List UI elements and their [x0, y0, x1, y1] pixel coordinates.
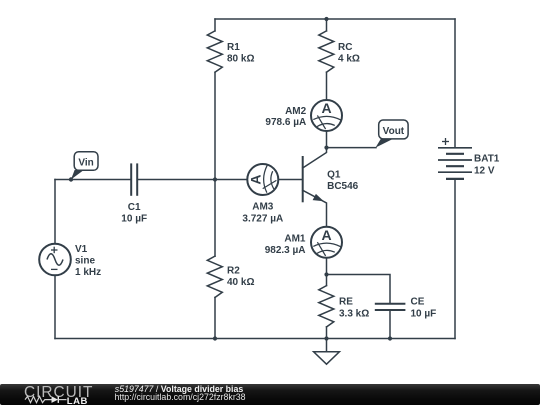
resistor R1: [207, 31, 222, 72]
svg-text:80 kΩ: 80 kΩ: [227, 54, 254, 65]
wire bottom rail: [55, 338, 455, 340]
label RE value: [339, 297, 369, 320]
svg-text:10 µF: 10 µF: [121, 214, 147, 225]
footer bar: [0, 384, 540, 405]
label AM1 value: [265, 233, 306, 256]
label R2 value: [227, 265, 254, 288]
svg-text:RC: RC: [338, 42, 352, 53]
node Vout flag: [376, 120, 409, 148]
label RC value: [338, 42, 360, 65]
svg-text:RE: RE: [339, 297, 353, 308]
footer CircuitLab logo: [24, 384, 93, 405]
svg-text:AM2: AM2: [285, 106, 307, 117]
wire left rail input: [54, 180, 56, 244]
label BAT1 value: [474, 154, 500, 177]
svg-text:C1: C1: [128, 202, 141, 213]
label Q1 value: [327, 169, 359, 192]
resistor RC: [319, 31, 334, 72]
svg-text:1 kHz: 1 kHz: [75, 267, 101, 278]
svg-text:AM3: AM3: [252, 202, 274, 213]
svg-text:AM1: AM1: [284, 233, 306, 244]
wire middle rail R1-R2: [214, 72, 216, 256]
wire AM2 to node Vout: [326, 131, 328, 148]
svg-text:BAT1: BAT1: [474, 154, 500, 165]
battery BAT1: [438, 148, 472, 179]
resistor RE: [319, 286, 334, 327]
wire RE bottom lead: [326, 327, 328, 339]
voltage source V1: [39, 244, 71, 276]
junction R2 bottom node: [213, 336, 217, 340]
wire Vin to C1: [55, 179, 130, 181]
wire top rail: [215, 18, 455, 20]
svg-text:A: A: [321, 100, 331, 116]
wire CE bottom lead: [389, 311, 391, 339]
wire RE top lead: [326, 275, 328, 286]
svg-text:http://circuitlab.com/cj272fzr: http://circuitlab.com/cj272fzr8kr38: [115, 392, 246, 402]
svg-text:3.727 µA: 3.727 µA: [242, 213, 283, 224]
label AM2 value: [265, 106, 306, 128]
svg-text:A: A: [321, 227, 331, 243]
svg-text:Vout: Vout: [383, 126, 405, 137]
svg-text:978.6 µA: 978.6 µA: [265, 117, 306, 128]
ammeter AM3: [247, 164, 278, 195]
footer title text: [115, 384, 246, 402]
junction ground node: [324, 336, 328, 340]
svg-text:3.3 kΩ: 3.3 kΩ: [339, 308, 369, 319]
svg-text:BC546: BC546: [327, 181, 359, 192]
label R1 value: [227, 42, 254, 65]
label C1 value: [121, 202, 147, 225]
wire C1 to AM3: [138, 179, 247, 181]
junction emitter node: [324, 272, 328, 276]
label CE value: [411, 297, 437, 320]
battery BAT1 plus sign: [442, 138, 449, 145]
capacitor CE: [375, 304, 406, 310]
svg-text:Vin: Vin: [78, 157, 93, 168]
svg-text:LAB: LAB: [67, 396, 88, 405]
svg-text:40 kΩ: 40 kΩ: [227, 277, 254, 288]
svg-text:V1: V1: [75, 244, 88, 255]
wire emitter node to CE: [327, 275, 391, 303]
svg-text:Q1: Q1: [327, 169, 341, 180]
junction Vout node: [324, 146, 328, 150]
wire V1 bottom lead: [54, 275, 56, 338]
svg-text:10 µF: 10 µF: [411, 308, 437, 319]
junction Vin tap: [69, 177, 73, 181]
junction base node: [213, 177, 217, 181]
svg-text:R1: R1: [227, 42, 240, 53]
wire RC to AM2: [326, 72, 328, 100]
svg-text:12 V: 12 V: [474, 165, 495, 176]
svg-text:CE: CE: [411, 297, 425, 308]
junction CE bottom node: [388, 336, 392, 340]
wire RC top lead: [326, 19, 328, 31]
transistor Q1: [303, 156, 324, 202]
svg-text:A: A: [247, 174, 263, 184]
wire AM3 to base Q1: [278, 179, 302, 181]
node Vin flag: [71, 152, 98, 180]
label AM3 value: [242, 202, 283, 225]
svg-text:4 kΩ: 4 kΩ: [338, 54, 360, 65]
ammeter AM1: [311, 227, 342, 258]
wire collector lead Q1: [303, 148, 327, 168]
junction top RC node: [324, 17, 328, 21]
wire R1 top lead: [214, 19, 216, 31]
wire R2 bottom lead: [214, 297, 216, 338]
svg-text:982.3 µA: 982.3 µA: [265, 245, 306, 256]
wire Vout tap: [327, 147, 377, 149]
wire battery bottom lead: [454, 180, 456, 339]
ground: [314, 339, 340, 365]
wire emitter lead Q1: [303, 190, 327, 227]
capacitor C1: [131, 163, 137, 195]
resistor R2: [207, 256, 222, 297]
svg-text:R2: R2: [227, 265, 240, 276]
ammeter AM2: [311, 100, 342, 131]
svg-text:sine: sine: [75, 256, 95, 267]
wire battery top lead: [454, 19, 456, 147]
label V1 value: [75, 244, 101, 278]
wire AM1 to emitter node: [326, 258, 328, 275]
